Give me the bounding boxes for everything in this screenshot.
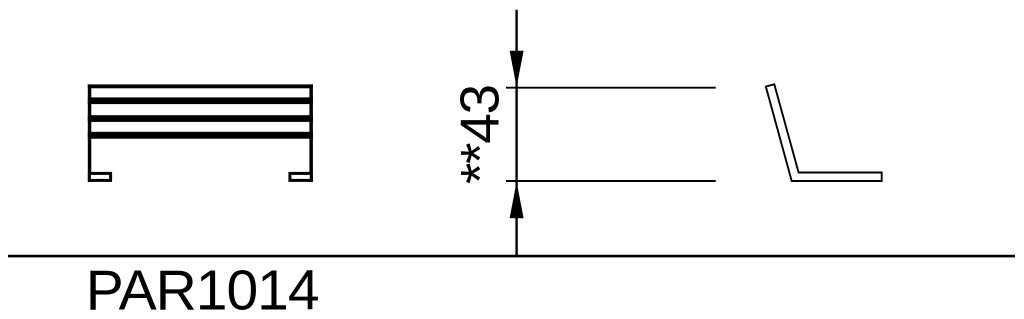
svg-text:PAR1014: PAR1014 xyxy=(86,259,319,319)
bench front view: left leg xyxy=(88,84,92,181)
bench front view: left foot xyxy=(89,173,110,180)
dimension upper extension line xyxy=(506,87,716,89)
dimension lower arrowhead (pointing up) xyxy=(510,182,524,219)
dimension upper arrowhead (pointing down) xyxy=(510,51,524,87)
bench front view: right leg xyxy=(309,84,313,181)
side view: bench profile (seat + backrest) xyxy=(766,84,882,181)
bench front view: slat 3 xyxy=(88,132,313,139)
bench front view: top rail xyxy=(88,84,313,88)
svg-text:**43: **43 xyxy=(449,85,511,184)
bench front view: right foot xyxy=(290,173,311,180)
dimension lower extension line xyxy=(506,180,716,182)
bench front view: slat 2 xyxy=(88,115,313,122)
dimension vertical line xyxy=(515,10,517,257)
bench front view: slat 1 xyxy=(88,97,313,104)
ground line xyxy=(8,255,1015,258)
